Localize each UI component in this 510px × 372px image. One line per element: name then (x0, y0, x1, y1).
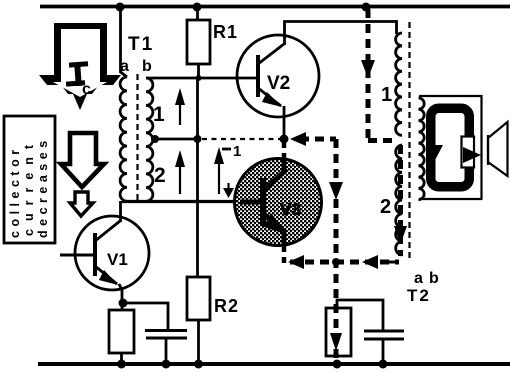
svg-text:current: current (22, 137, 36, 236)
svg-text:2: 2 (380, 196, 391, 218)
speaker cone (488, 122, 508, 176)
arrow polarity up with -1 label (218, 160, 220, 194)
svg-text:a: a (120, 58, 129, 75)
node bus junction (194, 135, 202, 143)
svg-text:T2: T2 (407, 286, 431, 305)
node on bottom rail (162, 360, 171, 369)
transformer T1 core (136, 74, 138, 203)
wire T1 center tap to bus (152, 138, 198, 141)
node dashed crossing (332, 258, 340, 266)
wire emitter junction to capacitor (123, 303, 168, 330)
transistor V1 (75, 216, 149, 290)
svg-text:T1: T1 (128, 34, 154, 55)
wire from top rail down to T1 primary (121, 7, 128, 77)
node on bottom rail (117, 360, 126, 369)
dashed path bottom of T2 to V3 emitter (290, 260, 399, 265)
resistor bottom center (in dashed path) (326, 308, 351, 356)
capacitor C1 (145, 329, 187, 332)
dashed path down the middle through resistor (334, 139, 339, 362)
svg-text:1: 1 (233, 143, 241, 160)
node on bottom rail (333, 360, 342, 369)
label -1 (222, 148, 231, 151)
dashed path from top rail down (thick) (366, 9, 371, 138)
wire V2 emitter down to junction (283, 106, 286, 141)
capacitor C2 (364, 330, 404, 333)
transformer T2 secondary winding (419, 98, 425, 200)
dashed V3 emitter/collector stubs (282, 141, 287, 160)
resistor R2 (187, 277, 210, 320)
label Ic (69, 61, 88, 67)
dashed path through T2 winding 2 (398, 145, 403, 256)
wire top supply rail (40, 5, 510, 9)
transformer T2 winding 2 (396, 145, 402, 255)
wire V1 emitter down (119, 284, 122, 310)
speaker circuit loop (419, 96, 482, 199)
svg-text:R2: R2 (214, 296, 239, 316)
svg-text:decreases: decreases (36, 136, 50, 238)
transformer T1 secondary winding (146, 78, 153, 201)
transistor V2 (237, 35, 319, 117)
wire bottom supply rail (38, 362, 510, 366)
ring arrow right into driver (463, 147, 481, 163)
transistor V3 shaded (235, 159, 322, 246)
medium hollow arrow (61, 133, 104, 187)
small hollow arrow (70, 192, 93, 216)
transformer T1 primary winding (120, 77, 127, 201)
wire vertical bus from base wire down to R2 (196, 78, 199, 277)
node on bottom rail (194, 360, 203, 369)
node junction on top rail at R1 (193, 3, 202, 12)
svg-text:c: c (82, 81, 91, 98)
wire T1 bottom to V3 base (122, 200, 235, 203)
svg-text:R1: R1 (213, 22, 238, 42)
arrow tick into V3 base (227, 183, 229, 190)
svg-text:a: a (414, 270, 423, 287)
wire resistor top to capacitor C2 (337, 300, 383, 331)
svg-text:1: 1 (153, 103, 165, 126)
svg-text:V3: V3 (280, 200, 301, 219)
arrow polarity up (winding 2 region) (179, 162, 181, 194)
resistor V1 emitter (109, 310, 134, 353)
svg-text:b: b (429, 270, 439, 287)
wire T1 secondary top to V2 base (146, 77, 257, 80)
svg-text:1: 1 (381, 84, 392, 106)
dashed path corner to T2 center tap (368, 138, 396, 143)
node emitter junction (119, 299, 128, 308)
speaker driver box (462, 137, 475, 168)
transformer T2 core (408, 22, 410, 258)
svg-text:V1: V1 (107, 250, 128, 269)
wire thin dashed center tap to V2 emitter junction (202, 138, 281, 140)
wire V2 collector up and over to T2 (285, 22, 397, 46)
winding 2 bottom terminal stub (389, 261, 397, 264)
svg-text:V2: V2 (267, 73, 290, 94)
node center tap junction (151, 135, 159, 143)
resistor R1 (196, 7, 199, 20)
arrow polarity up (winding 1 region) (179, 100, 181, 125)
svg-text:b: b (142, 58, 152, 75)
speaker flux ring thick (431, 108, 470, 187)
annotation box collector current decreases (4, 116, 55, 243)
big hollow arrow Ic (39, 23, 121, 110)
ring arrow down (left) (426, 145, 443, 161)
transformer T2 winding 1 (396, 33, 402, 135)
node junction R1 bottom on base wire (196, 75, 202, 81)
node junction on top rail at T2 dashed feed (362, 3, 371, 12)
dashed path V2 emitter junction leftward arrow (300, 137, 336, 142)
node junction on top rail at T1 (116, 3, 125, 12)
node V2 emitter junction (280, 135, 289, 144)
svg-text:collector: collector (8, 145, 22, 238)
svg-text:2: 2 (154, 164, 166, 187)
